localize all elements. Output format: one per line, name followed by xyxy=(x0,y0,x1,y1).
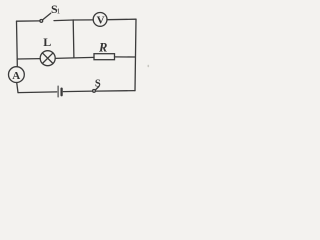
wire bottom side: bottom-left corner to battery xyxy=(18,91,57,94)
wire bottom side: battery to switch S xyxy=(63,90,92,93)
node J2: junction of left wire and lamp branch xyxy=(16,59,18,67)
svg-text:A: A xyxy=(12,70,20,82)
wire middle branch: resistor R to right wire xyxy=(115,56,136,58)
wire top side: switch S1 to node J1 xyxy=(54,19,73,22)
label S1 xyxy=(51,2,61,16)
node J3: junction of lamp branch and voltmeter branch xyxy=(74,56,94,59)
svg-text:L: L xyxy=(43,35,51,49)
wire left side upper: top-left corner to node J2 xyxy=(16,21,19,59)
voltmeter U1 V xyxy=(93,13,107,27)
ammeter A xyxy=(9,67,25,83)
wire voltmeter branch: node J1 to node J3 xyxy=(72,20,75,58)
svg-text:1: 1 xyxy=(57,7,61,16)
lamp L xyxy=(40,51,55,66)
switch S1 xyxy=(40,13,51,22)
wire bottom side: switch S to bottom-right corner xyxy=(96,90,135,93)
wire middle branch: node J2 to lamp L xyxy=(17,58,40,60)
switch S xyxy=(93,86,99,92)
wire top side: top-left corner to switch S1 pivot xyxy=(17,20,40,22)
stray mark at right edge xyxy=(148,65,150,67)
wire right side xyxy=(135,19,136,90)
battery BT1 xyxy=(58,86,62,97)
wire top side: voltmeter to top-right corner xyxy=(107,18,136,21)
wire middle branch: lamp L to node J3 xyxy=(55,57,74,60)
svg-text:R: R xyxy=(98,40,107,54)
node J1: junction of top wire and voltmeter branch drop xyxy=(73,19,93,21)
resistor R xyxy=(94,54,115,60)
svg-text:V: V xyxy=(97,14,105,26)
wire left side lower: ammeter to bottom-left corner xyxy=(17,83,18,93)
svg-text:S: S xyxy=(95,78,101,89)
